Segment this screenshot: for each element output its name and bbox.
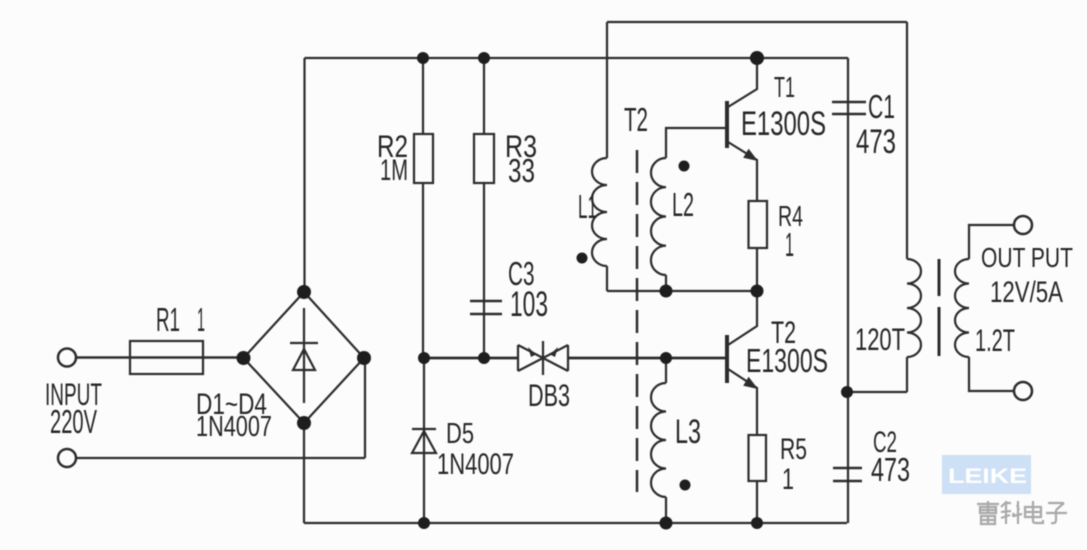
svg-text:220V: 220V <box>50 403 97 440</box>
svg-text:12V/5A: 12V/5A <box>990 276 1063 309</box>
svg-text:DB3: DB3 <box>528 377 570 413</box>
svg-text:120T: 120T <box>855 321 905 357</box>
svg-text:E1300S: E1300S <box>741 105 826 143</box>
svg-text:1N4007: 1N4007 <box>437 448 514 481</box>
svg-text:L2: L2 <box>672 186 694 223</box>
svg-text:R1: R1 <box>156 301 180 338</box>
svg-text:D5: D5 <box>446 418 474 450</box>
svg-text:LEIKE: LEIKE <box>948 465 1027 488</box>
svg-text:L3: L3 <box>675 413 701 451</box>
svg-text:C1: C1 <box>868 88 895 125</box>
svg-text:T2: T2 <box>624 101 648 138</box>
svg-text:33: 33 <box>508 152 535 189</box>
svg-text:473: 473 <box>856 123 896 161</box>
svg-text:E1300S: E1300S <box>746 342 828 379</box>
svg-text:1: 1 <box>785 226 794 263</box>
svg-text:1.2T: 1.2T <box>975 322 1015 358</box>
svg-text:1: 1 <box>197 301 205 338</box>
svg-text:T1: T1 <box>774 72 795 104</box>
svg-text:1M: 1M <box>380 154 408 187</box>
svg-text:1: 1 <box>782 463 794 496</box>
svg-text:103: 103 <box>510 285 548 324</box>
svg-text:OUT PUT: OUT PUT <box>981 242 1073 273</box>
svg-text:473: 473 <box>871 451 910 488</box>
svg-text:R5: R5 <box>780 433 807 466</box>
svg-text:L1: L1 <box>578 188 597 225</box>
svg-text:1N4007: 1N4007 <box>196 411 272 443</box>
